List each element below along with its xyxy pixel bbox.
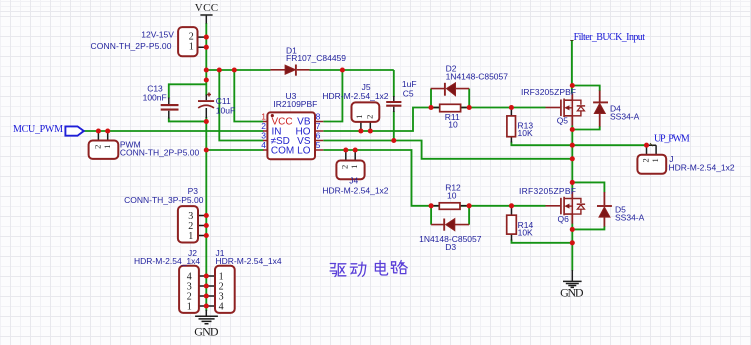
svg-text:1: 1 (187, 302, 192, 313)
svg-text:MCU_PWM: MCU_PWM (13, 124, 63, 135)
svg-text:1: 1 (349, 165, 359, 169)
svg-text:3: 3 (261, 130, 266, 140)
svg-text:2: 2 (641, 158, 651, 162)
svg-text:IRF3205ZPBF: IRF3205ZPBF (519, 186, 576, 196)
svg-text:8: 8 (316, 111, 321, 121)
svg-text:10K: 10K (518, 128, 533, 138)
svg-text:100nF: 100nF (143, 92, 167, 102)
svg-text:J4: J4 (349, 176, 358, 186)
svg-text:2: 2 (365, 115, 375, 119)
svg-text:12V-15V: 12V-15V (141, 30, 174, 40)
svg-text:FR107_C84459: FR107_C84459 (286, 53, 346, 63)
svg-text:Q6: Q6 (558, 214, 570, 224)
svg-text:D3: D3 (445, 242, 456, 252)
svg-text:HDR-M-2.54_1x2: HDR-M-2.54_1x2 (322, 186, 388, 196)
svg-text:10uF: 10uF (216, 105, 235, 115)
svg-text:10: 10 (448, 120, 458, 130)
svg-text:HDR-M-2.54_1x4: HDR-M-2.54_1x4 (216, 256, 282, 266)
svg-text:1: 1 (189, 42, 194, 53)
svg-text:C5: C5 (403, 88, 414, 98)
svg-text:SS34-A: SS34-A (610, 112, 640, 122)
svg-text:5: 5 (316, 140, 321, 150)
svg-text:2: 2 (261, 121, 266, 131)
svg-text:IR2109PBF: IR2109PBF (273, 99, 317, 109)
svg-text:1: 1 (102, 145, 112, 149)
svg-text:1: 1 (188, 231, 193, 242)
svg-text:HDR-M-2.54_1x2: HDR-M-2.54_1x2 (669, 162, 735, 172)
svg-text:HDR-M-2.54_1x4: HDR-M-2.54_1x4 (134, 256, 200, 266)
svg-text:LO: LO (297, 146, 311, 157)
svg-text:GND: GND (194, 325, 219, 339)
svg-text:VCC: VCC (195, 2, 218, 14)
svg-text:CONN-TH_2P-P5.00: CONN-TH_2P-P5.00 (91, 41, 172, 51)
svg-text:UP_PWM: UP_PWM (654, 133, 690, 144)
svg-text:Filter_BUCK_Input: Filter_BUCK_Input (574, 32, 646, 43)
svg-text:4: 4 (219, 302, 224, 313)
svg-text:1N4148-C85057: 1N4148-C85057 (446, 72, 509, 82)
svg-text:7: 7 (316, 121, 321, 131)
svg-text:1: 1 (261, 111, 266, 121)
svg-text:1: 1 (354, 115, 364, 119)
svg-text:Q5: Q5 (557, 116, 569, 126)
svg-text:CONN-TH_2P-P5.00: CONN-TH_2P-P5.00 (120, 147, 200, 157)
svg-text:1: 1 (650, 158, 660, 162)
svg-text:10: 10 (447, 191, 457, 201)
svg-text:HDR-M-2.54_1x2: HDR-M-2.54_1x2 (322, 91, 388, 101)
svg-text:COM: COM (271, 146, 294, 157)
svg-text:SS34-A: SS34-A (615, 213, 645, 223)
svg-text:6: 6 (316, 130, 321, 140)
svg-text:4: 4 (261, 140, 266, 150)
svg-text:CONN-TH_3P-P5.00: CONN-TH_3P-P5.00 (124, 195, 204, 205)
svg-text:IRF3205ZPBF: IRF3205ZPBF (521, 87, 576, 97)
svg-text:GND: GND (560, 286, 584, 300)
svg-text:10K: 10K (518, 228, 533, 238)
